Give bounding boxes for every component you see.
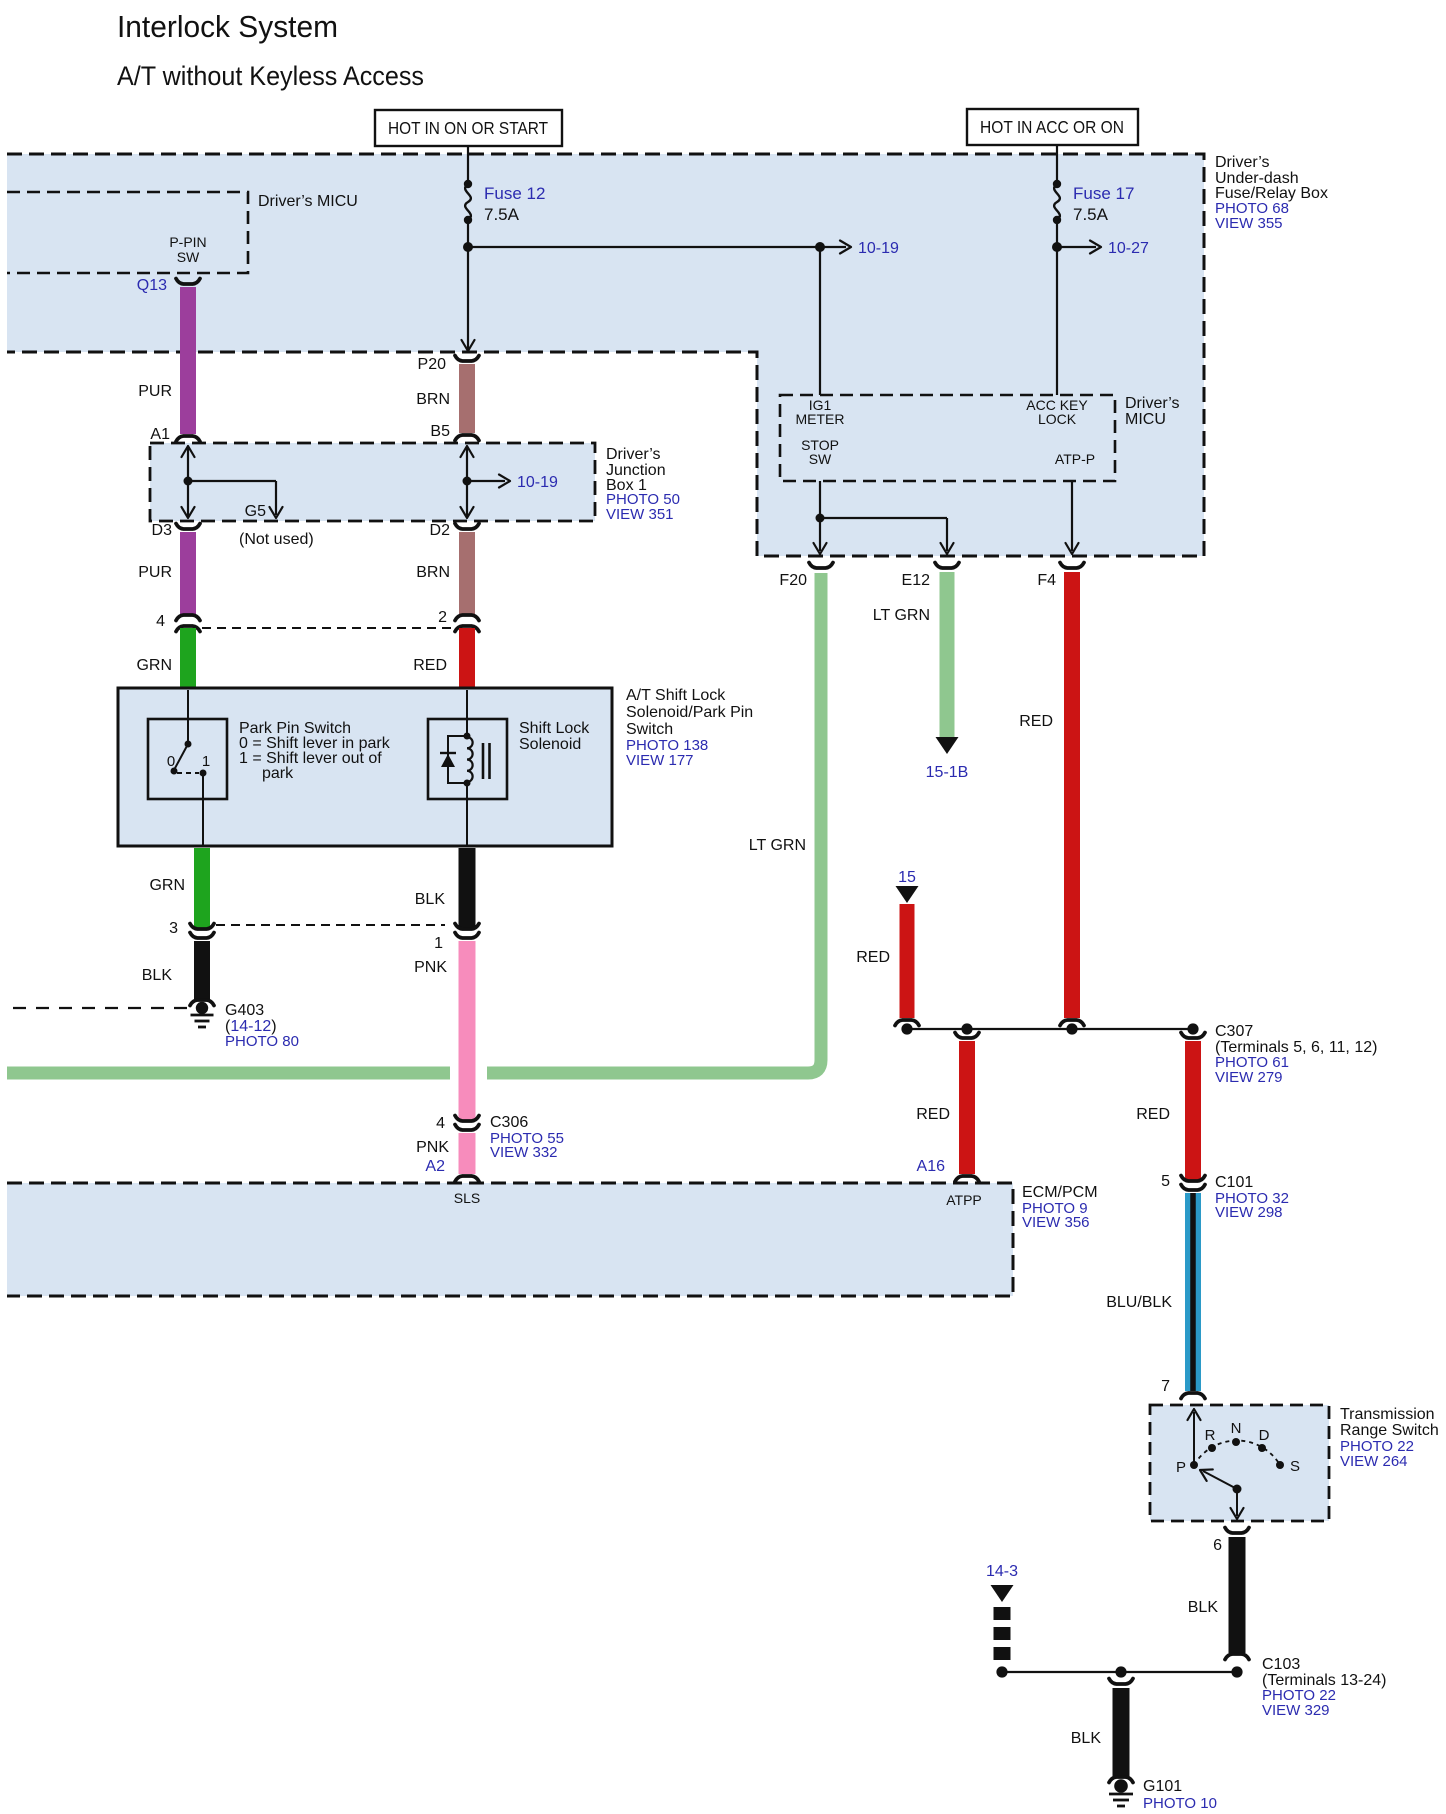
switch: transmission range rotary: [1176, 1409, 1300, 1519]
wire PUR Q13 to A1: [138, 287, 188, 434]
svg-text:15-1B: 15-1B: [926, 764, 969, 781]
svg-text:GRN: GRN: [136, 657, 172, 674]
svg-text:D: D: [1259, 1427, 1270, 1444]
wire BRN D2 to 2: [416, 532, 467, 616]
wire: ATP-P to F4: [1066, 481, 1079, 554]
svg-text:2: 2: [438, 609, 447, 626]
svg-text:15: 15: [898, 869, 916, 886]
svg-text:PUR: PUR: [138, 383, 172, 400]
pin E12 connector: [902, 563, 959, 590]
svg-text:G101: G101: [1143, 1778, 1182, 1795]
connector 2 (in-line): [438, 609, 479, 632]
wire RED bus to A16: [916, 1033, 979, 1175]
wire: junction box A1-D3 path: [182, 446, 195, 518]
svg-text:GRN: GRN: [149, 877, 185, 894]
svg-text:F20: F20: [779, 572, 807, 589]
svg-text:1: 1: [202, 753, 210, 770]
connector C101 pin 5 (in-line): [1161, 1173, 1205, 1190]
svg-text:Driver’s: Driver’s: [606, 446, 661, 463]
pin F4 connector: [1037, 563, 1084, 590]
node: branch to 10-19 (junction box): [463, 474, 559, 491]
svg-text:14-3: 14-3: [986, 1563, 1018, 1580]
svg-text:BLK: BLK: [1188, 1599, 1219, 1616]
connector 3 (in-line): [169, 920, 214, 938]
wire: dashed link to G403: [13, 1007, 190, 1009]
wire: connector 4-2 dashed link: [202, 627, 453, 629]
svg-text:P20: P20: [418, 356, 447, 373]
svg-text:Driver’s: Driver’s: [1215, 154, 1270, 171]
pin D2 connector: [430, 522, 479, 539]
fuse Fuse 17 7.5A: [1053, 145, 1135, 247]
svg-text:C307: C307: [1215, 1023, 1253, 1040]
svg-text:park: park: [262, 765, 294, 782]
label: C101 PHOTO 32 VIEW 298: [1215, 1174, 1289, 1221]
wire BLK 6 to C103: [1188, 1537, 1237, 1653]
svg-text:MICU: MICU: [1125, 411, 1166, 428]
svg-text:D2: D2: [430, 522, 451, 539]
svg-text:LT GRN: LT GRN: [873, 607, 930, 624]
svg-text:D3: D3: [152, 522, 173, 539]
pin 6 connector: [1213, 1528, 1249, 1555]
svg-text:7.5A: 7.5A: [1073, 205, 1109, 224]
svg-text:PNK: PNK: [416, 1139, 449, 1156]
svg-text:PUR: PUR: [138, 564, 172, 581]
svg-text:VIEW 298: VIEW 298: [1215, 1204, 1283, 1221]
svg-text:VIEW 279: VIEW 279: [1215, 1069, 1283, 1086]
wire: STOP SW to F20/E12: [814, 481, 954, 554]
wire BLK 3 to G403: [142, 941, 202, 999]
svg-text:R: R: [1205, 1427, 1216, 1444]
offpage arrow 15: [896, 869, 919, 903]
wire RED bus to C101: [1136, 1033, 1205, 1181]
connector 4 (in-line): [156, 613, 200, 632]
svg-text:A1: A1: [150, 426, 170, 443]
wire: fuse12 output bus: [462, 242, 821, 351]
label: G101 PHOTO 10: [1143, 1778, 1217, 1812]
wire: connector 3-1 dashed link: [216, 924, 445, 926]
wire PNK C306 to A2: [416, 1133, 467, 1174]
svg-text:C101: C101: [1215, 1174, 1253, 1191]
pin A2 connector: [425, 1158, 479, 1182]
svg-text:A/T Shift Lock: A/T Shift Lock: [626, 687, 726, 704]
svg-text:LOCK: LOCK: [1038, 411, 1077, 427]
svg-text:Solenoid/Park Pin: Solenoid/Park Pin: [626, 704, 753, 721]
wire LT GRN F20 to SLS bus (horizontal band): [7, 573, 821, 1073]
svg-text:BLK: BLK: [415, 891, 446, 908]
svg-text:BLK: BLK: [142, 967, 173, 984]
svg-text:SLS: SLS: [454, 1190, 480, 1206]
svg-text:RED: RED: [1136, 1106, 1170, 1123]
pin F20 connector: [779, 563, 833, 590]
power tag HOT IN ACC OR ON: [967, 109, 1138, 145]
node: ground bus C103: [996, 1666, 1242, 1677]
svg-text:G5: G5: [245, 503, 266, 520]
svg-text:Shift Lock: Shift Lock: [519, 720, 590, 737]
svg-text:METER: METER: [796, 411, 845, 427]
box: Driver's MICU (left): [7, 192, 358, 273]
label: Driver's Junction Box 1: [606, 446, 680, 523]
svg-text:VIEW 177: VIEW 177: [626, 752, 694, 769]
box: ECM/PCM: [7, 1183, 1013, 1296]
fuse Fuse 12 7.5A: [464, 146, 546, 247]
svg-text:VIEW 351: VIEW 351: [606, 506, 674, 523]
svg-text:VIEW 329: VIEW 329: [1262, 1702, 1330, 1719]
ground G403: [190, 1000, 214, 1027]
svg-text:10-19: 10-19: [517, 474, 558, 491]
svg-text:BLU/BLK: BLU/BLK: [1106, 1294, 1172, 1311]
svg-text:RED: RED: [1019, 713, 1053, 730]
svg-text:4: 4: [156, 613, 165, 630]
svg-text:A/T without Keyless Access: A/T without Keyless Access: [117, 61, 424, 91]
svg-text:7.5A: 7.5A: [484, 205, 520, 224]
svg-text:Fuse 12: Fuse 12: [484, 184, 545, 203]
label: G403 (14-12) PHOTO 80: [225, 1002, 299, 1050]
wire BRN P20 to B5: [416, 364, 467, 433]
svg-text:HOT IN ON OR START: HOT IN ON OR START: [388, 118, 548, 138]
box: Driver's MICU (right): [780, 395, 1115, 481]
svg-text:1: 1: [434, 935, 443, 952]
svg-text:Range Switch: Range Switch: [1340, 1422, 1439, 1439]
node: C307 bus: [901, 1023, 1198, 1034]
svg-text:BLK: BLK: [1071, 1730, 1102, 1747]
svg-text:3: 3: [169, 920, 178, 937]
pin D3 connector: [152, 522, 200, 539]
wire GRN park pin switch to 3: [149, 848, 202, 928]
svg-text:ATP-P: ATP-P: [1055, 451, 1095, 467]
label: Driver's MICU (right): [1125, 395, 1180, 428]
svg-text:G403: G403: [225, 1002, 264, 1019]
svg-text:F4: F4: [1037, 572, 1056, 589]
svg-text:LT GRN: LT GRN: [749, 837, 806, 854]
svg-text:Fuse 17: Fuse 17: [1073, 184, 1134, 203]
solenoid: Shift Lock Solenoid: [428, 690, 507, 846]
label: ECM/PCM PHOTO 9 VIEW 356: [1022, 1184, 1098, 1231]
wire PUR D3 to 4: [138, 532, 188, 616]
svg-text:Driver’s: Driver’s: [1125, 395, 1180, 412]
svg-text:7: 7: [1161, 1378, 1170, 1395]
svg-text:N: N: [1231, 1420, 1242, 1437]
svg-text:E12: E12: [902, 572, 931, 589]
wire: to IG1 METER: [819, 247, 821, 395]
svg-text:SW: SW: [177, 249, 200, 265]
svg-text:Q13: Q13: [137, 277, 167, 294]
pin B5 connector: [430, 423, 479, 441]
wire: junction box B5-D2 path: [461, 446, 474, 518]
label: C306 PHOTO 55 VIEW 332: [490, 1114, 564, 1161]
wire RED F4 to C307 bus: [1019, 572, 1084, 1026]
svg-text:BRN: BRN: [416, 564, 450, 581]
wire BLU/BLK C101 to 7: [1106, 1193, 1193, 1391]
svg-text:VIEW 264: VIEW 264: [1340, 1453, 1408, 1470]
wire LT GRN E12 to 15-1B: [873, 572, 969, 781]
svg-text:P: P: [1176, 1459, 1186, 1476]
svg-text:RED: RED: [856, 949, 890, 966]
node: branch to 10-19: [815, 240, 899, 257]
label: Shift Lock Solenoid: [519, 720, 590, 753]
ground G101: [1109, 1777, 1133, 1806]
label: Park Pin Switch legend: [239, 720, 391, 782]
label: Driver's Under-dash Fuse/Relay Box: [1215, 154, 1328, 232]
svg-text:5: 5: [1161, 1173, 1170, 1190]
wire GRN 4 to park pin switch: [136, 628, 188, 687]
svg-text:PHOTO 10: PHOTO 10: [1143, 1795, 1217, 1812]
svg-text:P-PIN: P-PIN: [169, 234, 206, 250]
svg-text:0: 0: [167, 753, 175, 770]
pin Q13 connector: [137, 277, 200, 294]
svg-text:ATPP: ATPP: [946, 1192, 982, 1208]
svg-text:ECM/PCM: ECM/PCM: [1022, 1184, 1098, 1201]
node: branch to 10-27: [1052, 240, 1149, 257]
svg-text:RED: RED: [413, 657, 447, 674]
svg-text:A16: A16: [917, 1158, 946, 1175]
svg-text:VIEW 355: VIEW 355: [1215, 215, 1283, 232]
connector C306 pin 4 (in-line): [436, 1115, 479, 1132]
svg-text:Solenoid: Solenoid: [519, 736, 581, 753]
svg-text:HOT IN ACC OR ON: HOT IN ACC OR ON: [980, 117, 1124, 137]
svg-text:VIEW 356: VIEW 356: [1022, 1214, 1090, 1231]
wire PNK 1 to C306: [414, 941, 467, 1120]
offpage arrow 14-3: [986, 1563, 1018, 1602]
svg-text:C306: C306: [490, 1114, 528, 1131]
svg-text:10-19: 10-19: [858, 240, 899, 257]
pin 7 connector: [1161, 1378, 1205, 1399]
wire BLK bus to G101: [1071, 1679, 1133, 1777]
box: Driver's Under-dash Fuse/Relay Box: [7, 154, 1204, 556]
pin P20 connector: [418, 356, 479, 374]
box: Driver's Junction Box 1: [150, 443, 595, 521]
wire RED 2 to shift lock solenoid: [413, 628, 467, 687]
wire BLK solenoid to 1: [415, 848, 467, 928]
svg-text:6: 6: [1213, 1537, 1222, 1554]
svg-text:PNK: PNK: [414, 959, 447, 976]
pin A1 connector: [150, 426, 200, 443]
svg-text:Driver’s MICU: Driver’s MICU: [258, 193, 358, 210]
label: Transmission Range Switch: [1340, 1406, 1439, 1470]
label: C103 (Terminals 13-24): [1262, 1656, 1386, 1719]
svg-text:S: S: [1290, 1458, 1300, 1475]
svg-text:(Not used): (Not used): [239, 531, 314, 548]
svg-text:Transmission: Transmission: [1340, 1406, 1435, 1423]
svg-text:RED: RED: [916, 1106, 950, 1123]
svg-text:A2: A2: [425, 1158, 445, 1175]
svg-text:PHOTO 80: PHOTO 80: [225, 1033, 299, 1050]
svg-text:B5: B5: [430, 423, 450, 440]
connector 1 (in-line): [434, 924, 479, 953]
wire RED 15 to C307 bus: [856, 904, 919, 1026]
label: A/T Shift Lock Solenoid/Park Pin Switch: [626, 687, 753, 769]
svg-text:SW: SW: [809, 451, 832, 467]
switch: Park Pin Switch: [148, 690, 227, 846]
svg-text:Interlock System: Interlock System: [117, 9, 338, 44]
node: branch to G5: [184, 477, 283, 521]
label: C307 (Terminals 5, 6, 11, 12): [1215, 1023, 1377, 1086]
pin A16 connector: [917, 1158, 979, 1182]
svg-text:4: 4: [436, 1115, 445, 1132]
svg-text:10-27: 10-27: [1108, 240, 1149, 257]
svg-text:BRN: BRN: [416, 391, 450, 408]
box: Transmission Range Switch: [1150, 1405, 1329, 1521]
power tag HOT IN ON OR START: [375, 110, 562, 146]
box: A/T Shift Lock Solenoid/Park Pin Switch: [118, 688, 612, 846]
pin C103 connector: [1225, 1654, 1249, 1660]
wire: to ACC KEY LOCK: [1056, 247, 1058, 395]
svg-text:Switch: Switch: [626, 721, 673, 738]
svg-text:VIEW 332: VIEW 332: [490, 1144, 558, 1161]
svg-text:C103: C103: [1262, 1656, 1300, 1673]
wire BLK dashed 14-3 to ground bus: [994, 1607, 1011, 1661]
svg-text:1 = Shift lever out of: 1 = Shift lever out of: [239, 750, 382, 767]
